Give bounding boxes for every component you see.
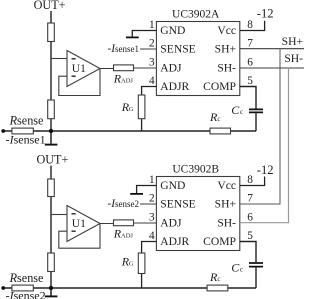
svg-text:GND: GND xyxy=(160,179,185,192)
svg-text:5: 5 xyxy=(247,230,253,242)
wire SH- net (pin6 A) xyxy=(240,67,304,69)
svg-text:OUT+: OUT+ xyxy=(34,0,66,12)
svg-text:2: 2 xyxy=(149,193,155,205)
resistor Rsense1 xyxy=(12,128,33,134)
svg-text:ADJR: ADJR xyxy=(160,80,189,93)
node terminal dot xyxy=(1,129,5,133)
capacitor Cc xyxy=(249,263,263,267)
resistor RG2 xyxy=(138,253,145,274)
svg-text:-12: -12 xyxy=(257,163,274,177)
svg-text:7: 7 xyxy=(247,38,253,50)
resistor divider upper R2 xyxy=(48,179,55,197)
svg-text:4: 4 xyxy=(149,230,155,242)
svg-text:Vcc: Vcc xyxy=(217,179,236,192)
resistor RADJ1 xyxy=(114,65,134,71)
op-amp U1 xyxy=(67,206,100,242)
wire SH+ vertical bus to pin7 B xyxy=(240,49,280,204)
svg-text:Rsense: Rsense xyxy=(9,114,44,128)
svg-text:1: 1 xyxy=(149,174,155,186)
resistor RADJ2 xyxy=(114,220,134,226)
wire op-amp output to RADJ xyxy=(100,67,156,70)
svg-text:-Isense2: -Isense2 xyxy=(6,289,46,299)
svg-text:COMP: COMP xyxy=(203,235,236,248)
wire pin4 ADJR to RG xyxy=(142,87,157,132)
svg-text:UC3902B: UC3902B xyxy=(172,164,219,176)
svg-text:COMP: COMP xyxy=(203,80,236,93)
wire pin8 Vcc to -12 rail xyxy=(240,177,265,186)
svg-text:U1: U1 xyxy=(72,218,86,230)
svg-text:SH+: SH+ xyxy=(282,35,303,48)
svg-text:G: G xyxy=(129,261,134,268)
svg-text:7: 7 xyxy=(247,193,253,205)
wire pin2 SENSE xyxy=(140,203,156,205)
wire sense bus xyxy=(3,130,256,132)
svg-text:ADJ: ADJ xyxy=(160,62,182,75)
svg-text:SH+: SH+ xyxy=(215,43,236,56)
svg-text:-Isense1: -Isense1 xyxy=(6,133,46,147)
resistor RG1 xyxy=(138,95,145,119)
wire OUT+ vertical divider xyxy=(50,11,52,131)
svg-text:SH-: SH- xyxy=(284,52,303,65)
svg-text:U1: U1 xyxy=(72,63,86,75)
wire sense bus xyxy=(3,287,256,289)
ground xyxy=(50,288,52,296)
wire op-amp output to RADJ xyxy=(100,222,156,225)
wire pin4 ADJR to RG xyxy=(142,242,157,289)
svg-text:6: 6 xyxy=(247,57,253,69)
capacitor Cc xyxy=(249,109,263,112)
resistor Rc1 xyxy=(210,128,231,134)
resistor divider lower R2 xyxy=(48,253,55,272)
svg-text:8: 8 xyxy=(247,19,253,31)
wire pin2 SENSE xyxy=(140,48,156,50)
resistor Rsense2 xyxy=(12,285,33,291)
svg-text:ADJ: ADJ xyxy=(121,233,133,240)
wire SH- vertical bus to pin6 B xyxy=(240,68,289,223)
svg-text:SENSE: SENSE xyxy=(160,198,195,211)
svg-text:ADJ: ADJ xyxy=(121,78,133,85)
svg-text:1: 1 xyxy=(149,19,155,31)
svg-text:ADJ: ADJ xyxy=(160,217,182,230)
svg-text:3: 3 xyxy=(149,57,155,69)
wire pin5 COMP to Cc xyxy=(240,87,256,132)
svg-text:c: c xyxy=(217,115,220,123)
resistor divider lower R1 xyxy=(48,100,55,119)
resistor divider upper R1 xyxy=(48,23,55,42)
svg-text:SH-: SH- xyxy=(217,62,236,75)
wire pin8 Vcc to -12 rail xyxy=(240,21,265,31)
ground pin1 tick xyxy=(130,193,143,195)
svg-text:G: G xyxy=(129,106,134,113)
svg-text:Vcc: Vcc xyxy=(217,24,236,37)
svg-text:3: 3 xyxy=(149,212,155,224)
svg-text:UC3902A: UC3902A xyxy=(172,9,220,21)
svg-text:6: 6 xyxy=(247,212,253,224)
node sense junction dot xyxy=(49,286,53,290)
IC UC3902B xyxy=(156,177,239,251)
svg-text:c: c xyxy=(217,275,220,283)
node terminal dot xyxy=(1,286,5,290)
svg-text:2: 2 xyxy=(149,38,155,50)
ground pin1 tick xyxy=(126,36,139,38)
svg-text:SH+: SH+ xyxy=(215,198,236,211)
svg-text:-12: -12 xyxy=(257,6,274,20)
svg-text:c: c xyxy=(240,108,243,116)
resistor Rc2 xyxy=(207,285,228,291)
svg-text:GND: GND xyxy=(160,24,185,37)
svg-text:SENSE: SENSE xyxy=(160,43,195,56)
wire pin1 to ground xyxy=(132,31,156,37)
svg-text:OUT+: OUT+ xyxy=(36,153,68,167)
wire pin1 to ground xyxy=(137,186,157,194)
wire op-amp feedback loop xyxy=(59,224,100,249)
wire OUT+ vertical divider xyxy=(50,166,52,288)
svg-text:4: 4 xyxy=(149,75,155,87)
svg-text:5: 5 xyxy=(247,75,253,87)
svg-text:ADJR: ADJR xyxy=(160,235,189,248)
wire divider tap to op-amp + input xyxy=(51,58,67,60)
svg-text:8: 8 xyxy=(247,174,253,186)
wire op-amp feedback loop xyxy=(59,69,100,96)
wire SH+ net (pin7 A) xyxy=(240,48,304,50)
svg-text:SH-: SH- xyxy=(217,217,236,230)
svg-text:Rsense: Rsense xyxy=(9,271,44,285)
wire pin5 COMP to Cc xyxy=(240,242,256,289)
svg-text:c: c xyxy=(240,265,243,273)
ground xyxy=(50,131,52,144)
node sense junction dot xyxy=(49,129,53,133)
svg-text:-Isense2: -Isense2 xyxy=(107,198,139,210)
wire divider tap to op-amp + input xyxy=(51,214,67,216)
op-amp U1 xyxy=(67,51,100,87)
IC UC3902A xyxy=(156,22,239,96)
svg-text:-Isense1: -Isense1 xyxy=(107,43,139,55)
